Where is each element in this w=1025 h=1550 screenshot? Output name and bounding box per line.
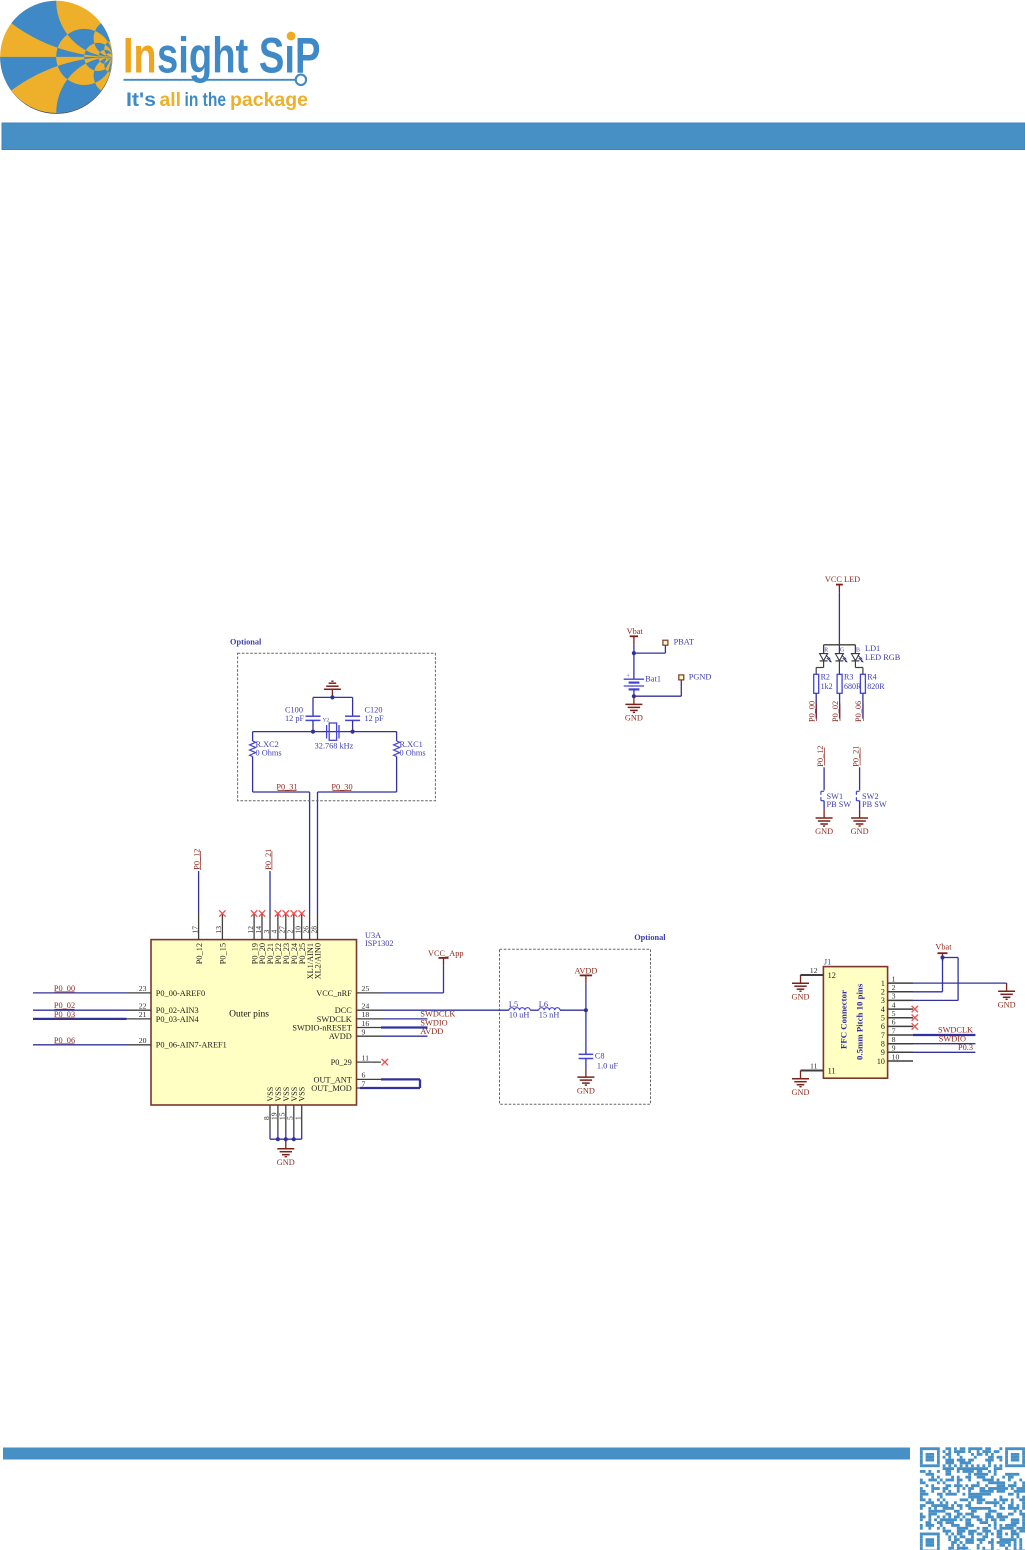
svg-text:P0_06: P0_06 [854, 701, 863, 722]
svg-text:1k2: 1k2 [821, 682, 833, 691]
svg-text:11: 11 [810, 1062, 818, 1071]
svg-text:P0_00-AREF0: P0_00-AREF0 [156, 989, 205, 998]
svg-text:P0_06-AIN7-AREF1: P0_06-AIN7-AREF1 [156, 1041, 227, 1050]
svg-text:GND: GND [851, 827, 869, 836]
svg-text:R2: R2 [821, 672, 830, 681]
svg-text:1: 1 [881, 979, 885, 988]
svg-text:P0_00: P0_00 [807, 701, 816, 722]
svg-text:0.5mm Pitch 10 pins: 0.5mm Pitch 10 pins [855, 983, 865, 1060]
svg-text:P0_12: P0_12 [195, 943, 204, 964]
svg-text:12: 12 [828, 971, 836, 980]
svg-text:Outer pins: Outer pins [229, 1010, 269, 1020]
svg-text:12 pF: 12 pF [365, 714, 385, 723]
svg-text:12 pF: 12 pF [285, 714, 305, 723]
svg-text:DCC: DCC [335, 1006, 353, 1015]
svg-text:P0_30: P0_30 [331, 782, 352, 791]
svg-text:L6: L6 [539, 1000, 548, 1009]
svg-text:SWDIO: SWDIO [420, 1018, 447, 1027]
svg-text:J1: J1 [824, 958, 831, 967]
svg-text:GND: GND [625, 714, 643, 723]
svg-text:GND: GND [792, 1088, 810, 1097]
svg-text:25: 25 [362, 984, 370, 993]
svg-text:15 nH: 15 nH [539, 1011, 560, 1020]
svg-text:7: 7 [892, 1026, 896, 1035]
svg-text:PB SW: PB SW [862, 800, 887, 809]
svg-text:5: 5 [892, 1009, 896, 1018]
svg-text:28: 28 [309, 926, 318, 934]
svg-text:In: In [123, 28, 156, 84]
svg-text:P0_31: P0_31 [276, 782, 297, 791]
svg-text:12: 12 [810, 966, 818, 975]
svg-text:10: 10 [892, 1052, 900, 1061]
svg-text:Y2: Y2 [323, 718, 330, 724]
svg-text:1: 1 [294, 1116, 303, 1120]
svg-text:GND: GND [998, 1001, 1016, 1010]
svg-text:SWDIO-nRESET: SWDIO-nRESET [292, 1023, 351, 1032]
svg-text:PB SW: PB SW [827, 800, 852, 809]
svg-text:3: 3 [881, 996, 885, 1005]
svg-text:20: 20 [139, 1036, 147, 1045]
svg-text:P0_29: P0_29 [331, 1058, 352, 1067]
svg-text:P0_15: P0_15 [219, 943, 228, 964]
svg-text:SWDCLK: SWDCLK [420, 1010, 455, 1019]
svg-text:GND: GND [577, 1086, 595, 1095]
svg-text:C8: C8 [595, 1051, 605, 1060]
svg-text:package: package [230, 90, 308, 111]
svg-text:AVDD: AVDD [574, 966, 597, 975]
svg-text:VCC_nRF: VCC_nRF [316, 989, 352, 998]
svg-text:XL2/AIN0: XL2/AIN0 [314, 943, 323, 979]
svg-text:13: 13 [214, 926, 223, 934]
svg-text:GND: GND [792, 992, 810, 1001]
svg-text:Vbat: Vbat [627, 627, 644, 636]
svg-text:0 Ohms: 0 Ohms [400, 748, 426, 757]
svg-text:LED RGB: LED RGB [865, 653, 901, 662]
svg-text:R: R [824, 647, 828, 653]
svg-text:1: 1 [892, 974, 896, 983]
svg-text:P0.3: P0.3 [958, 1043, 973, 1052]
svg-text:680R: 680R [844, 682, 862, 691]
svg-text:LD1: LD1 [865, 644, 880, 653]
svg-text:L5: L5 [509, 1000, 518, 1009]
svg-text:FFC Connector: FFC Connector [839, 990, 849, 1049]
svg-text:Bat1: Bat1 [645, 675, 661, 684]
svg-text:17: 17 [190, 926, 199, 934]
svg-text:18: 18 [362, 1010, 370, 1019]
svg-text:3: 3 [892, 992, 896, 1001]
svg-text:10 uH: 10 uH [509, 1011, 530, 1020]
svg-text:9: 9 [881, 1048, 885, 1057]
svg-text:GND: GND [277, 1158, 295, 1167]
svg-text:11: 11 [362, 1053, 370, 1062]
svg-text:820R: 820R [867, 682, 885, 691]
svg-text:GND: GND [815, 827, 833, 836]
svg-text:G: G [840, 647, 844, 653]
svg-text:ISP1302: ISP1302 [365, 939, 394, 948]
svg-text:all: all [160, 90, 182, 111]
svg-text:Optional: Optional [634, 933, 666, 942]
svg-text:P0_02: P0_02 [831, 701, 840, 722]
svg-text:AVDD: AVDD [329, 1032, 352, 1041]
svg-text:11: 11 [828, 1066, 836, 1075]
svg-text:P0_02-AIN3: P0_02-AIN3 [156, 1006, 199, 1015]
svg-text:21: 21 [139, 1010, 147, 1019]
svg-text:32.768 kHz: 32.768 kHz [315, 741, 354, 750]
svg-text:P0_21: P0_21 [851, 746, 860, 767]
svg-text:It's: It's [126, 90, 156, 111]
svg-text:VCC_App: VCC_App [428, 949, 464, 958]
svg-text:7: 7 [881, 1031, 885, 1040]
svg-text:OUT_MOD: OUT_MOD [311, 1084, 352, 1093]
svg-text:Optional: Optional [230, 637, 262, 646]
svg-text:Vbat: Vbat [935, 943, 952, 952]
svg-text:+: + [626, 673, 630, 680]
svg-text:B: B [856, 647, 860, 653]
svg-text:1.0 uF: 1.0 uF [597, 1062, 619, 1071]
svg-text:5: 5 [881, 1014, 885, 1023]
svg-text:10: 10 [877, 1057, 885, 1066]
svg-text:AVDD: AVDD [420, 1027, 443, 1036]
svg-text:VSS: VSS [298, 1087, 307, 1102]
svg-text:VCC LED: VCC LED [825, 575, 860, 584]
svg-text:OUT_ANT: OUT_ANT [314, 1075, 352, 1084]
svg-text:9: 9 [362, 1028, 366, 1037]
svg-text:SWDCLK: SWDCLK [938, 1026, 973, 1035]
svg-text:9: 9 [892, 1044, 896, 1053]
svg-text:PGND: PGND [689, 673, 712, 682]
svg-text:16: 16 [362, 1019, 370, 1028]
svg-text:in the: in the [185, 90, 227, 111]
svg-text:PBAT: PBAT [674, 637, 694, 646]
svg-text:R3: R3 [844, 672, 853, 681]
svg-text:P0_12: P0_12 [816, 746, 825, 767]
svg-text:0 Ohms: 0 Ohms [256, 748, 282, 757]
svg-text:23: 23 [139, 984, 147, 993]
svg-text:R4: R4 [867, 672, 876, 681]
svg-text:P0_03-AIN4: P0_03-AIN4 [156, 1015, 200, 1024]
